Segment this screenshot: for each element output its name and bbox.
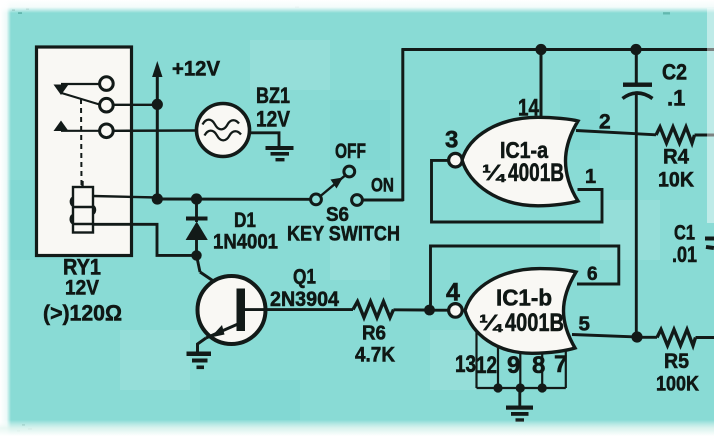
svg-text:5: 5 bbox=[579, 313, 590, 336]
relay coil bbox=[71, 181, 95, 233]
svg-text:1: 1 bbox=[585, 166, 596, 188]
resistor R6 4.7K bbox=[353, 302, 394, 318]
svg-text:12V: 12V bbox=[256, 107, 290, 132]
node rail C2 bbox=[630, 44, 641, 55]
node pin5 R5 C2 junction bbox=[631, 331, 642, 342]
wire feedback pin3 to pin1 bbox=[432, 160, 603, 222]
ground IC1-b pin7 bus bbox=[518, 388, 521, 406]
node pin4 junction bbox=[424, 305, 435, 316]
IC1-b unused input stubs 13 12 9 8 7 bbox=[477, 332, 566, 388]
relay RY1 box bbox=[37, 47, 132, 256]
svg-text:4001B: 4001B bbox=[505, 309, 564, 337]
op-amp style NOR gate IC1-a (mirrored) bbox=[462, 117, 578, 206]
svg-text:IC1-b: IC1-b bbox=[496, 285, 552, 311]
relay armature bbox=[62, 93, 100, 105]
svg-text:4.7K: 4.7K bbox=[355, 344, 395, 367]
relay contact wire pin1 bbox=[61, 83, 100, 85]
relay armature triangle top bbox=[54, 85, 69, 96]
svg-text:.1: .1 bbox=[667, 86, 685, 111]
svg-text:ON: ON bbox=[371, 176, 394, 197]
buzzer BZ1 bbox=[197, 104, 250, 157]
relay contact circle 2 bbox=[100, 98, 114, 112]
node bus dots bbox=[493, 383, 502, 392]
node D1 top bbox=[191, 193, 202, 204]
relay contact circle 1 bbox=[100, 77, 114, 91]
svg-text:R5: R5 bbox=[664, 350, 689, 373]
svg-text:.01: .01 bbox=[672, 242, 697, 267]
IC1-b pin5 lead bbox=[572, 335, 637, 338]
svg-text:12V: 12V bbox=[65, 277, 99, 300]
wire Q1 base to R6 bbox=[244, 308, 353, 311]
svg-text:C2: C2 bbox=[662, 60, 687, 85]
svg-text:KEY SWITCH: KEY SWITCH bbox=[287, 223, 400, 246]
svg-text:(>)120Ω: (>)120Ω bbox=[43, 301, 122, 326]
node rail pin14 bbox=[535, 44, 546, 55]
wire feedback pin4 to pin6 bbox=[431, 246, 619, 305]
svg-text:4: 4 bbox=[446, 279, 460, 307]
svg-text:D1: D1 bbox=[234, 209, 256, 232]
capacitor C1 edge marks bbox=[705, 237, 714, 241]
svg-text:14: 14 bbox=[518, 95, 540, 122]
svg-text:8: 8 bbox=[532, 352, 545, 379]
svg-text:+12V: +12V bbox=[172, 58, 220, 81]
svg-text:R6: R6 bbox=[362, 322, 386, 345]
diode D1 1N4001 bbox=[195, 199, 198, 222]
svg-text:13: 13 bbox=[455, 351, 476, 378]
relay contact wire pin3 bbox=[61, 130, 100, 132]
svg-text:10K: 10K bbox=[658, 168, 694, 192]
wire coil top to +12V node bbox=[93, 196, 157, 198]
node relay contact 2 to supply bbox=[112, 104, 157, 106]
ground Q1 bbox=[187, 352, 212, 370]
svg-text:9: 9 bbox=[507, 352, 520, 379]
ground buzzer bbox=[266, 146, 294, 161]
node supply/main wire bbox=[152, 193, 163, 204]
resistor R4 10K bbox=[656, 127, 695, 143]
wire buzzer to ground bbox=[250, 133, 280, 146]
svg-text:3: 3 bbox=[445, 127, 458, 154]
wire relay contact 3 to buzzer bbox=[112, 129, 196, 132]
svg-text:BZ1: BZ1 bbox=[256, 83, 290, 108]
key switch S6 bbox=[311, 194, 322, 205]
page margins bbox=[0, 0, 714, 13]
svg-text:R4: R4 bbox=[663, 146, 689, 169]
transistor Q1 2N3904 bbox=[197, 255, 201, 272]
resistor R5 100K bbox=[641, 336, 657, 339]
wire main horizontal to key switch bbox=[157, 198, 311, 201]
wire ON contact to vertical bbox=[363, 199, 404, 202]
+12V supply arrow bbox=[156, 74, 159, 199]
wire coil bottom to D1 anode node bbox=[93, 224, 197, 255]
IC1-a pin14 lead bbox=[540, 49, 543, 118]
svg-text:7: 7 bbox=[554, 351, 567, 378]
op-amp style NOR gate IC1-b (mirrored) bbox=[465, 269, 576, 354]
svg-text:¼: ¼ bbox=[479, 310, 503, 335]
svg-text:Q1: Q1 bbox=[293, 266, 316, 289]
node D1 anode junction bbox=[191, 250, 201, 260]
relay triangle bottom bbox=[54, 121, 69, 132]
svg-text:2: 2 bbox=[599, 111, 611, 134]
svg-text:6: 6 bbox=[587, 264, 598, 285]
wire key switch to top rail bbox=[401, 49, 404, 202]
wire top rail +12V bbox=[402, 48, 714, 51]
IC1-a output bubble pin3 bbox=[449, 153, 463, 167]
svg-text:OFF: OFF bbox=[335, 140, 366, 163]
IC1-b output bubble pin4 bbox=[449, 304, 463, 318]
relay contact circle 3 bbox=[100, 124, 114, 138]
relay dashed actuator line bbox=[80, 99, 83, 186]
svg-text:¼: ¼ bbox=[482, 160, 506, 185]
svg-text:2N3904: 2N3904 bbox=[270, 288, 339, 311]
svg-text:1N4001: 1N4001 bbox=[213, 231, 278, 254]
svg-text:100K: 100K bbox=[656, 373, 699, 396]
svg-text:12: 12 bbox=[476, 352, 497, 379]
capacitor C2 .1 bbox=[635, 50, 638, 84]
svg-text:4001B: 4001B bbox=[508, 159, 564, 187]
IC1-a pin2 lead bbox=[576, 131, 656, 135]
